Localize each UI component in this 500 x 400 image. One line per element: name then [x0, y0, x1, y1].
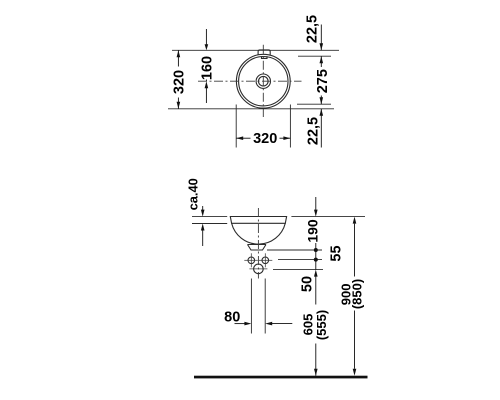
dimension 275 arrows	[320, 56, 324, 63]
svg-text:55: 55	[329, 245, 345, 261]
dimension 22,5 bottom arrow	[320, 109, 324, 116]
crosshair right faucet hole	[259, 253, 273, 267]
dimension 320 bottom line	[236, 137, 290, 139]
svg-text:80: 80	[224, 309, 240, 325]
dimension 190 arrow	[314, 210, 318, 217]
extension line rim-top left	[192, 216, 227, 218]
extension line circle-bottom tangent	[168, 108, 334, 110]
drain pipe left line	[250, 279, 252, 334]
crosshair left faucet hole	[244, 253, 257, 267]
svg-text:320: 320	[253, 131, 277, 147]
svg-text:(850): (850)	[350, 279, 365, 309]
extension line 22,5 below top	[298, 55, 331, 57]
dimension 900 (850) line	[354, 224, 356, 369]
crosshair trap circle	[249, 268, 267, 270]
dimension 160 line	[205, 29, 207, 103]
extension line rim-top right	[291, 216, 365, 218]
extension line right tangent vertical	[289, 105, 291, 148]
dimension ca.40 arrows	[202, 206, 204, 210]
basin outer rim circle	[236, 54, 290, 108]
svg-text:ca.40: ca.40	[186, 178, 201, 210]
floor line	[194, 376, 368, 379]
extension line counter left	[192, 223, 227, 225]
extension line trap level	[273, 269, 323, 271]
drain outlet trapezoid	[248, 245, 267, 251]
extension line tab-top tangent	[172, 49, 339, 51]
extension line 22,5 above bottom	[297, 103, 331, 105]
drain pipe right line	[264, 279, 266, 334]
dimension 320 left arrows	[177, 50, 181, 57]
rim trapezoid	[230, 217, 286, 224]
faucet hole left circle	[248, 257, 255, 264]
dimension 22,5 top arrow	[320, 43, 324, 50]
svg-text:160: 160	[199, 56, 215, 80]
svg-text:190: 190	[305, 219, 321, 243]
svg-text:(555): (555)	[314, 310, 329, 340]
dimension 320 bottom arrows	[236, 136, 243, 140]
faucet hole right circle	[262, 257, 269, 264]
dimension 50 line	[315, 260, 317, 270]
dimension 80 lines	[235, 323, 293, 325]
dimension 605 arrows	[314, 270, 318, 277]
svg-text:50: 50	[300, 276, 316, 292]
dimension 320 left line	[177, 50, 179, 109]
dimension 55 line	[315, 250, 317, 260]
dimension 605 (555) line	[315, 277, 317, 376]
dimension 900 arrows	[353, 217, 357, 224]
center line vertical (front view)	[257, 208, 259, 279]
dimension 22,5 top line	[320, 25, 322, 51]
trap big circle	[254, 264, 264, 274]
svg-text:320: 320	[172, 70, 188, 94]
dimension 22,5 bottom line	[320, 109, 322, 148]
drain inner circle	[259, 76, 269, 86]
dimension 275 line	[320, 56, 322, 104]
overflow tab top	[258, 50, 270, 55]
dimension 160 arrows	[205, 44, 209, 50]
overflow slot notch	[262, 56, 268, 58]
dimension dot at faucet level	[314, 258, 318, 262]
basin inner rim circle	[239, 56, 288, 105]
extension line outlet-bottom level	[267, 249, 322, 251]
center line vertical (top view)	[262, 45, 264, 117]
svg-text:275: 275	[315, 69, 331, 93]
dimension dot at outlet level	[314, 248, 318, 252]
extension line faucet-hole level	[278, 259, 322, 261]
dimension 190 line	[315, 197, 317, 250]
drain outer circle	[256, 74, 270, 88]
bowl outer arc	[232, 223, 286, 244]
extension line left tangent vertical	[235, 105, 237, 148]
dimension 80 arrows	[244, 322, 251, 326]
center line horizontal (top view)	[198, 80, 302, 82]
svg-text:22,5: 22,5	[306, 117, 322, 145]
svg-text:22,5: 22,5	[305, 15, 321, 43]
